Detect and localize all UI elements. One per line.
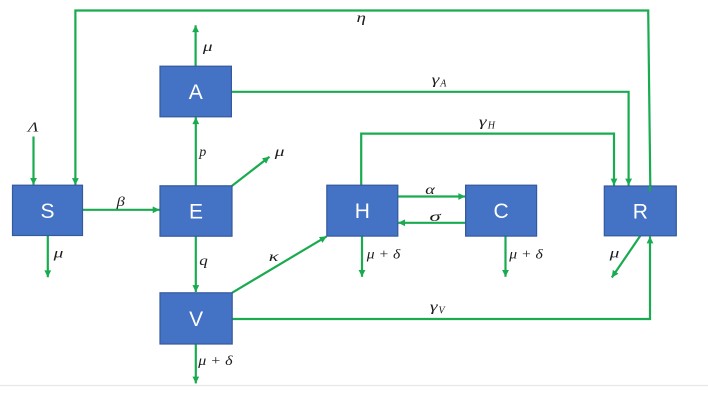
svg-text:S: S <box>40 200 54 223</box>
svg-text:α: α <box>425 182 435 198</box>
wire mu+delta out of H bottom <box>361 236 363 277</box>
wire gamma_A: A right to R top <box>232 92 629 186</box>
wire q: E bottom to V top <box>195 236 197 292</box>
wire mu+delta out of C bottom <box>504 236 506 277</box>
svg-text:E: E <box>189 201 203 224</box>
svg-text:A: A <box>189 81 203 104</box>
wire beta: S to E <box>83 209 160 211</box>
svg-text:μ: μ <box>52 245 63 261</box>
svg-text:μ + δ: μ + δ <box>366 248 401 263</box>
wire sigma: C to H <box>398 222 465 224</box>
wire gamma_H: H top to R top <box>361 134 614 186</box>
svg-text:κ: κ <box>269 248 279 264</box>
wire mu out of S bottom <box>47 236 49 278</box>
svg-text:μ: μ <box>274 143 285 159</box>
wire Lambda into S <box>32 137 34 185</box>
svg-text:μ + δ: μ + δ <box>508 248 543 263</box>
box C <box>466 185 537 236</box>
svg-text:μ: μ <box>608 245 619 261</box>
box V <box>160 293 232 344</box>
svg-text:μ + δ: μ + δ <box>197 354 233 369</box>
wire mu+delta out of V bottom <box>195 344 197 383</box>
svg-text:σ: σ <box>430 209 442 225</box>
svg-text:V: V <box>189 308 203 331</box>
wire alpha: H to C <box>398 195 466 197</box>
wire p: E top to A bottom <box>195 117 197 186</box>
svg-text:η: η <box>357 10 366 26</box>
box E <box>160 186 232 236</box>
box H <box>327 185 398 236</box>
svg-text:V: V <box>439 306 447 317</box>
wire mu diagonal out of E top-right <box>232 157 270 186</box>
svg-text:C: C <box>494 200 509 223</box>
box S <box>13 185 83 235</box>
svg-text:Λ: Λ <box>26 120 39 135</box>
wire eta stub inside R <box>649 186 651 192</box>
wire gamma_V: V right to R bottom <box>232 237 650 320</box>
wire mu out of A top <box>195 25 197 66</box>
svg-text:β: β <box>116 194 126 210</box>
svg-text:μ: μ <box>202 38 213 54</box>
svg-text:p: p <box>198 145 206 160</box>
svg-text:q: q <box>199 254 208 269</box>
svg-text:A: A <box>439 79 447 90</box>
svg-text:R: R <box>633 201 648 224</box>
svg-text:H: H <box>355 200 370 223</box>
svg-text:γ: γ <box>479 113 488 129</box>
wire mu diagonal out of R bottom <box>612 236 641 278</box>
box A <box>160 66 231 117</box>
wire eta: R top, up, across top, down into S top <box>75 11 650 187</box>
page edge line <box>0 385 708 387</box>
svg-text:H: H <box>487 121 496 132</box>
wire kappa: V top-right to H bottom-left <box>232 236 327 292</box>
box R <box>604 186 676 236</box>
